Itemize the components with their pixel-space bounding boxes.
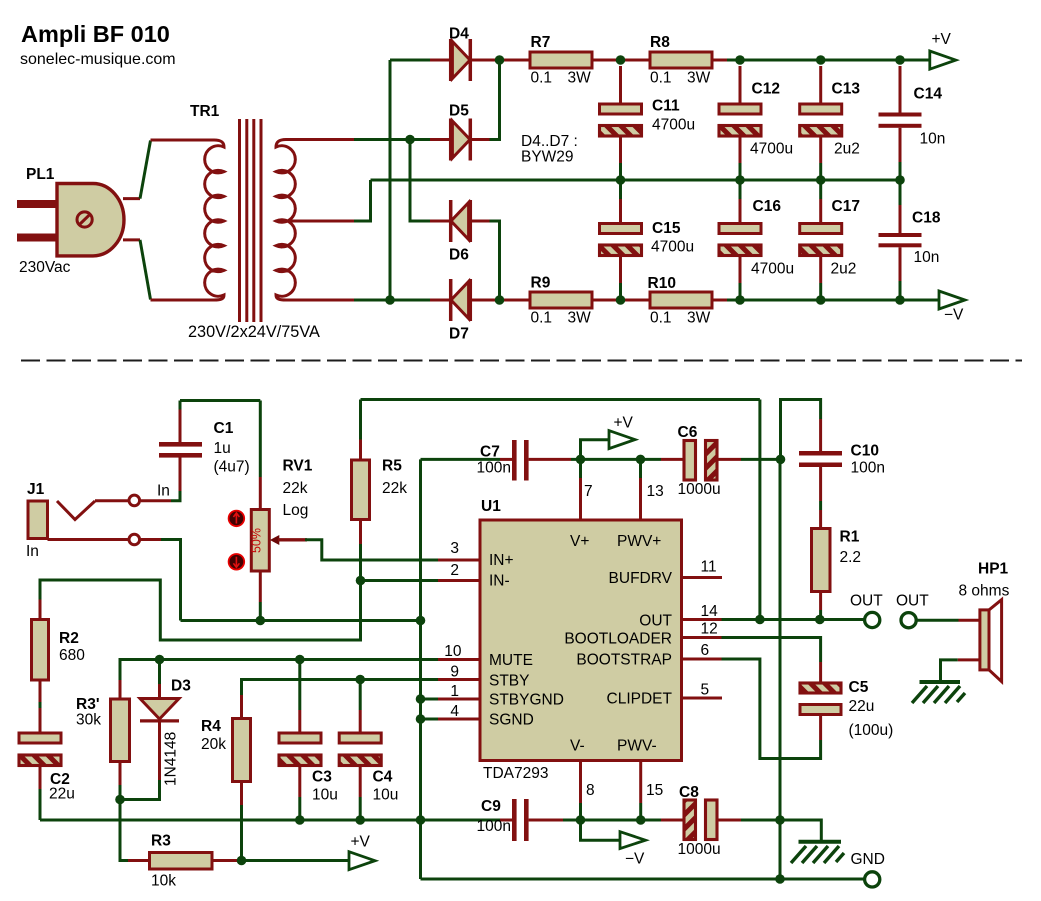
U1 pin stub IN- pin 2 — [438, 579, 480, 582]
svg-text:IN+: IN+ — [489, 552, 514, 569]
svg-text:RV1: RV1 — [283, 458, 313, 475]
svg-text:4700u: 4700u — [651, 239, 694, 256]
svg-text:D3: D3 — [171, 678, 191, 695]
capacitor C13 — [819, 66, 822, 104]
node dots OUT row — [755, 615, 765, 625]
wire STBYGND row — [421, 698, 439, 701]
U1 pin stub PWV+ pin 13 — [639, 478, 642, 520]
svg-text:C5: C5 — [849, 679, 869, 696]
svg-text:1000u: 1000u — [678, 841, 721, 858]
svg-text:(4u7): (4u7) — [214, 459, 250, 476]
svg-text:0.1: 0.1 — [650, 70, 672, 87]
wire to GND symbol 1 — [780, 820, 821, 840]
U1 pin stub SGND pin 4 — [438, 718, 480, 721]
node dot C6 to ground trunk — [776, 455, 786, 465]
node dot bottom winding / D7 — [385, 295, 395, 305]
capacitor C10 — [819, 419, 822, 451]
svg-text:D4..D7 :: D4..D7 : — [521, 133, 578, 150]
wire signal ground rail — [40, 819, 500, 822]
ground symbol 1 — [799, 840, 842, 844]
svg-text:3W: 3W — [568, 310, 592, 327]
svg-text:V-: V- — [570, 738, 585, 755]
svg-text:14: 14 — [701, 603, 719, 620]
node dot RV1 bottom / ground bus — [255, 616, 265, 626]
svg-text:R3': R3' — [76, 696, 100, 713]
svg-text:In: In — [26, 543, 39, 560]
svg-text:100n: 100n — [477, 460, 511, 477]
+V arrow (supply to U1) — [581, 440, 610, 460]
terminal circle OUT 2 — [901, 613, 916, 628]
capacitor C8 — [661, 819, 684, 822]
svg-text:sonelec-musique.com: sonelec-musique.com — [20, 51, 176, 68]
svg-text:D6: D6 — [449, 247, 469, 264]
potentiometer down button — [229, 554, 245, 570]
svg-text:U1: U1 — [481, 498, 501, 515]
svg-text:12: 12 — [701, 621, 718, 638]
capacitor C17 — [819, 180, 822, 199]
svg-text:8: 8 — [586, 782, 595, 799]
svg-text:3W: 3W — [687, 310, 711, 327]
node dot R5/R2/IN- — [356, 576, 366, 586]
node dot R3'/D3 — [115, 795, 125, 805]
svg-text:100n: 100n — [477, 818, 511, 835]
svg-text:R9: R9 — [531, 275, 551, 292]
svg-text:BUFDRV: BUFDRV — [609, 570, 673, 587]
svg-text:C6: C6 — [678, 424, 698, 441]
plug PL1 prong 1 — [17, 200, 57, 208]
wire IN- from junction — [361, 579, 439, 582]
svg-text:0.1: 0.1 — [531, 70, 553, 87]
wire signal ground trunk x420 — [419, 459, 422, 879]
node dots -V rail — [735, 295, 745, 305]
wire J1 sleeve row — [48, 538, 129, 541]
node dot secondary top / D5 — [405, 135, 415, 145]
capacitor C1 — [179, 458, 182, 492]
svg-text:100n: 100n — [851, 460, 885, 477]
svg-text:MUTE: MUTE — [489, 652, 533, 669]
wire power ground trunk x780 — [781, 400, 821, 460]
svg-text:22u: 22u — [849, 698, 875, 715]
svg-text:−V: −V — [944, 307, 964, 324]
wire R7 to R8 — [592, 59, 650, 62]
capacitor C3 — [295, 655, 305, 665]
wire R10 to -V rail — [712, 299, 727, 302]
svg-text:7: 7 — [584, 483, 593, 500]
capacitor C6 — [661, 458, 684, 461]
U1 pin stub BOOTLOADER pin 12 — [682, 636, 722, 639]
svg-text:C9: C9 — [481, 798, 501, 815]
svg-text:R10: R10 — [648, 275, 676, 292]
svg-text:10k: 10k — [151, 873, 176, 890]
svg-text:2u2: 2u2 — [831, 261, 857, 278]
svg-text:R4: R4 — [201, 718, 221, 735]
svg-text:IN-: IN- — [489, 573, 510, 590]
svg-text:PWV-: PWV- — [617, 738, 657, 755]
svg-text:10n: 10n — [920, 131, 946, 148]
svg-text:STBYGND: STBYGND — [489, 692, 564, 709]
wire tip to terminal circle — [95, 499, 128, 502]
wire STBY row — [242, 680, 439, 696]
svg-text:OUT: OUT — [896, 593, 929, 610]
wire audio ground bus — [181, 619, 421, 622]
transformer TR1 primary winding — [151, 140, 225, 300]
-V arrow (supply to U1) — [581, 820, 621, 840]
wire plug to transformer top (diagonal) — [140, 141, 151, 199]
svg-text:0.1: 0.1 — [531, 310, 553, 327]
svg-text:+V: +V — [614, 415, 634, 432]
svg-text:Log: Log — [283, 502, 309, 519]
svg-text:Ampli BF 010: Ampli BF 010 — [21, 21, 170, 47]
node dot R3/R4 — [237, 856, 247, 866]
svg-text:R7: R7 — [531, 34, 551, 51]
node dots pins 7/13 — [576, 455, 586, 465]
U1 pin stub PWV- pin 15 — [639, 761, 642, 804]
svg-text:C12: C12 — [752, 81, 780, 98]
terminal circle In bottom — [129, 534, 140, 545]
svg-text:C10: C10 — [851, 443, 879, 460]
U1 pin stub V- pin 8 — [579, 761, 582, 804]
svg-text:V+: V+ — [570, 533, 589, 550]
svg-text:C18: C18 — [912, 210, 941, 227]
svg-text:5: 5 — [701, 682, 710, 699]
wire D7 anode to R9 — [472, 299, 531, 302]
wire center tap jog to 0V rail — [354, 180, 371, 221]
transformer TR1 center tap — [276, 220, 354, 223]
capacitor C2 — [19, 733, 61, 743]
U1 pin stub MUTE pin 10 — [438, 658, 480, 661]
svg-text:22k: 22k — [283, 480, 308, 497]
svg-text:50%: 50% — [250, 528, 264, 553]
svg-text:C15: C15 — [652, 220, 681, 237]
svg-text:3W: 3W — [568, 70, 592, 87]
wire speaker bottom to ground — [958, 658, 980, 661]
plug PL1 prong 2 — [17, 234, 57, 242]
svg-text:6: 6 — [701, 642, 710, 659]
wire bottom ground rail — [421, 878, 866, 881]
svg-text:C13: C13 — [832, 81, 861, 98]
U1 pin stub IN+ pin 3 — [438, 559, 480, 562]
wire R9 to R10 — [592, 299, 650, 302]
svg-text:SGND: SGND — [489, 712, 534, 729]
wire OUT net vertical x760 — [758, 400, 761, 620]
svg-text:+V: +V — [932, 31, 952, 48]
svg-text:10n: 10n — [914, 249, 940, 266]
terminal circle OUT 1 — [865, 612, 880, 627]
svg-text:C16: C16 — [753, 198, 782, 215]
svg-text:TR1: TR1 — [190, 103, 220, 120]
svg-text:C17: C17 — [832, 198, 860, 215]
wire secondary top to D5 — [354, 138, 430, 141]
svg-text:R8: R8 — [650, 34, 670, 51]
svg-text:20k: 20k — [201, 736, 226, 753]
svg-text:PL1: PL1 — [26, 166, 55, 183]
svg-text:15: 15 — [646, 782, 663, 799]
node dot C8 / ground trunk — [775, 815, 785, 825]
wire D4 cathode to R7 — [472, 59, 531, 62]
svg-text:BOOTSTRAP: BOOTSTRAP — [576, 652, 672, 669]
U1 pin stub STBYGND pin 1 — [438, 698, 480, 701]
transformer TR1 secondary winding — [276, 140, 354, 301]
potentiometer up button — [229, 511, 245, 527]
svg-text:230V/2x24V/75VA: 230V/2x24V/75VA — [188, 323, 320, 341]
svg-text:30k: 30k — [76, 712, 101, 729]
U1 pin stub OUT pin 14 — [682, 618, 722, 621]
svg-text:HP1: HP1 — [978, 561, 1009, 578]
svg-text:1000u: 1000u — [678, 481, 721, 498]
wire SGND row — [421, 718, 439, 721]
svg-text:(100u): (100u) — [849, 722, 894, 739]
wire wiper to IN+ — [305, 540, 438, 560]
dashed separator line — [21, 360, 1022, 362]
jack J1 body — [28, 501, 48, 539]
jack J1 tip contact — [57, 501, 95, 520]
capacitor C15 — [619, 180, 622, 199]
svg-text:D5: D5 — [449, 103, 469, 120]
capacitor C11 — [619, 66, 622, 104]
svg-text:22k: 22k — [382, 480, 407, 497]
svg-text:BOOTLOADER: BOOTLOADER — [564, 631, 672, 648]
svg-text:BYW29: BYW29 — [521, 149, 574, 166]
capacitor C5 — [819, 662, 822, 683]
plug PL1 screw — [77, 212, 92, 227]
node dots 0V rail — [616, 175, 626, 185]
svg-text:10u: 10u — [373, 787, 399, 804]
wire feedback rail (OUT to R5 top) — [361, 398, 760, 401]
svg-text:R2: R2 — [59, 630, 79, 647]
svg-text:OUT: OUT — [639, 613, 672, 630]
-V arrow terminal — [939, 291, 965, 309]
svg-text:3: 3 — [450, 540, 459, 557]
svg-text:CLIPDET: CLIPDET — [607, 691, 673, 708]
svg-text:4700u: 4700u — [750, 141, 793, 158]
node dot D6/D7 junction — [495, 295, 505, 305]
svg-text:R5: R5 — [382, 458, 402, 475]
svg-text:C11: C11 — [652, 98, 680, 115]
svg-text:J1: J1 — [27, 481, 45, 498]
wire 0V rail — [371, 179, 901, 182]
node dot C15 bottom — [616, 295, 626, 305]
svg-text:PWV+: PWV+ — [617, 533, 661, 550]
svg-text:C4: C4 — [373, 769, 393, 786]
terminal circle GND — [865, 872, 880, 887]
wire OUT row — [722, 618, 866, 621]
svg-text:C14: C14 — [914, 86, 943, 103]
wire OUT2 to speaker — [916, 619, 959, 622]
wire circle to C1 (node In) — [141, 499, 171, 502]
svg-text:TDA7293: TDA7293 — [483, 765, 548, 782]
node dot C11 top — [616, 55, 626, 65]
wire vertical x390 (D4 anode to bottom winding) — [389, 60, 392, 300]
svg-text:0.1: 0.1 — [650, 310, 672, 327]
node dot D4/D5 junction — [495, 55, 505, 65]
U1 pin stub BOOTSTRAP pin 6 — [682, 658, 722, 661]
capacitor C16 — [739, 180, 742, 199]
wire C1 top to RV1 top — [180, 399, 260, 402]
wire BOOTLOADER to C5 — [722, 638, 821, 663]
svg-text:C7: C7 — [480, 444, 500, 461]
wire MUTE row — [120, 660, 438, 681]
svg-text:C3: C3 — [312, 769, 332, 786]
+V arrow (bias) — [242, 859, 350, 862]
wire R3' dot down to R3 — [120, 800, 128, 861]
svg-text:680: 680 — [59, 647, 85, 664]
svg-text:22u: 22u — [49, 786, 75, 803]
terminal circle In top — [129, 495, 140, 506]
node dots V- rail — [576, 815, 586, 825]
capacitor C14 — [899, 66, 902, 113]
resistor R1 — [812, 529, 831, 592]
svg-text:OUT: OUT — [850, 593, 883, 610]
svg-text:13: 13 — [647, 483, 664, 500]
svg-text:8 ohms: 8 ohms — [959, 583, 1010, 600]
svg-text:4700u: 4700u — [652, 117, 695, 134]
svg-text:R3: R3 — [151, 833, 171, 850]
U1 pin stub CLIPDET pin 5 — [682, 697, 723, 700]
svg-text:10: 10 — [444, 643, 462, 660]
svg-text:D7: D7 — [449, 326, 469, 343]
svg-text:In: In — [157, 483, 170, 500]
wire D5 cathode jog up to D4 row — [472, 138, 490, 141]
capacitor C7 — [421, 458, 501, 461]
svg-text:3W: 3W — [687, 70, 711, 87]
wire D4 anode row — [390, 59, 430, 62]
svg-text:2.2: 2.2 — [840, 549, 862, 566]
svg-text:2: 2 — [450, 562, 459, 579]
wire D6 anode jog down to D7 row — [472, 220, 490, 223]
node dots signal ground rail — [295, 815, 305, 825]
capacitor C9 — [500, 819, 512, 822]
svg-text:1N4148: 1N4148 — [163, 732, 180, 786]
capacitor C18 — [899, 180, 902, 205]
capacitor C12 — [739, 66, 742, 104]
svg-text:−V: −V — [625, 851, 645, 868]
wire R8 to +V rail — [712, 59, 727, 62]
U1 pin stub V+ pin 7 — [579, 478, 582, 520]
svg-text:R1: R1 — [840, 529, 860, 546]
capacitor C4 — [355, 675, 365, 685]
svg-text:11: 11 — [701, 559, 717, 576]
svg-text:2u2: 2u2 — [834, 141, 860, 158]
wire plug to transformer bottom (diagonal) — [140, 240, 151, 300]
node dots trunk — [416, 616, 426, 626]
U1 pin stub STBY pin 9 — [438, 678, 480, 681]
transformer TR1 core — [238, 119, 241, 322]
wire vertical x410 (D5 anode to D6 cathode) — [410, 140, 430, 222]
svg-text:1u: 1u — [214, 440, 231, 457]
ground symbol 2 — [920, 680, 961, 684]
svg-text:4700u: 4700u — [751, 261, 794, 278]
svg-text:10u: 10u — [312, 787, 338, 804]
plug PL1 body — [57, 184, 124, 256]
plug terminal stubs — [123, 197, 140, 200]
wire secondary bottom to D7 — [354, 299, 430, 302]
potentiometer RV1 wiper arrow — [270, 535, 279, 545]
svg-text:9: 9 — [450, 664, 459, 681]
svg-text:230Vac: 230Vac — [19, 259, 71, 276]
svg-text:STBY: STBY — [489, 673, 529, 690]
U1 pin stub BUFDRV pin 11 — [682, 576, 723, 579]
node dots +V rail — [735, 55, 745, 65]
svg-text:+V: +V — [351, 834, 371, 851]
node dot bottom rail / trunk — [775, 874, 785, 884]
svg-text:4: 4 — [450, 703, 459, 720]
svg-text:GND: GND — [851, 851, 885, 868]
svg-text:C8: C8 — [679, 784, 699, 801]
svg-text:1: 1 — [450, 683, 459, 700]
svg-text:C1: C1 — [214, 420, 234, 437]
